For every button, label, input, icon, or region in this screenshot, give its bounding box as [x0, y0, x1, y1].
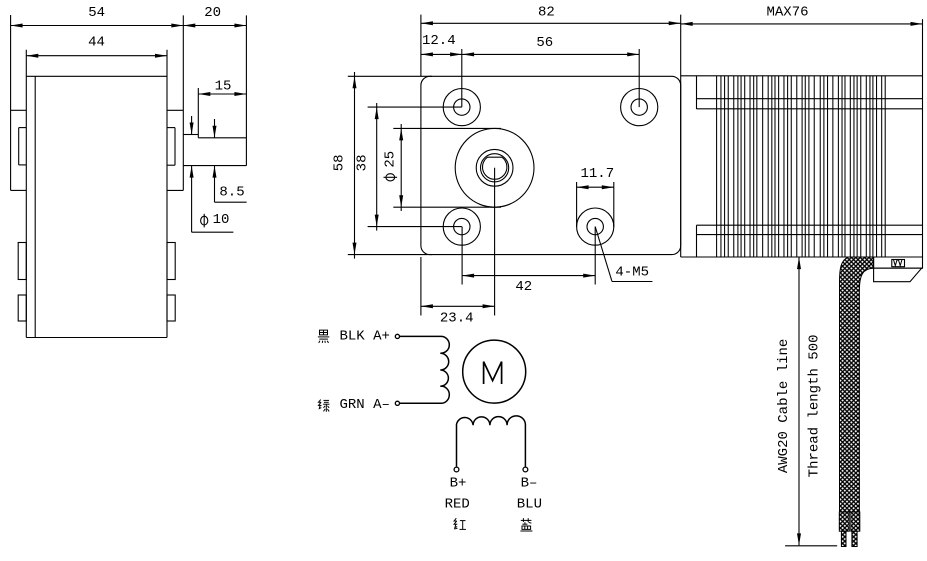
dimension 11.7 ext lines: [577, 182, 614, 227]
svg-text:56: 56: [536, 35, 553, 51]
left flange tab: [19, 128, 27, 165]
gearbox body outline: [26, 50, 167, 338]
dimension 11.7 text: [580, 166, 614, 182]
dimension 54 text: [88, 5, 105, 21]
gearbox side view: left flange ext+edge line: [10, 15, 12, 190]
dimension 8.5 text: [219, 184, 244, 200]
cable split wire left: [839, 512, 849, 531]
dimension 42 ext lines: [462, 227, 595, 285]
shaft flat top edge: [198, 137, 246, 139]
dimension 82 dim line: [421, 21, 681, 25]
label RED chinese: [454, 518, 466, 529]
dimension phi25 dim line: [399, 124, 403, 211]
label BLK A+: [340, 329, 390, 345]
label B-: [521, 476, 538, 492]
motor letter M: [484, 362, 502, 384]
svg-text:44: 44: [88, 35, 105, 51]
cable length dim line: [797, 257, 801, 545]
dimension 38 dim line: [375, 103, 379, 231]
svg-text:38: 38: [355, 154, 371, 171]
svg-text:82: 82: [538, 5, 555, 21]
label GRN A- chinese: [319, 400, 330, 412]
svg-text:15: 15: [215, 79, 232, 95]
dimension 82 text: [538, 5, 555, 21]
motor body outline: [681, 15, 923, 257]
dimension 42 text: [515, 279, 532, 295]
dimension phi10 leader: [192, 231, 234, 233]
dimension 58 ext lines: [348, 76, 432, 254]
hole ext line top-right: [638, 49, 640, 107]
svg-text:RED: RED: [445, 497, 470, 513]
coil A wires and winding: [399, 336, 449, 403]
right body tab lower: [167, 295, 175, 321]
dimension 15 text: [215, 79, 232, 95]
connector polarity mark: [892, 260, 905, 267]
left flange plate: [11, 110, 27, 190]
svg-text:11.7: 11.7: [580, 166, 614, 182]
dimension 23.4 ext line: [420, 257, 422, 316]
svg-text:8.5: 8.5: [219, 184, 244, 200]
label 4-M5 text: [615, 264, 649, 280]
dimension 12.4 dim line: [421, 52, 462, 56]
terminal A+: [395, 334, 399, 338]
svg-text:BLU: BLU: [517, 497, 542, 513]
right flange tab: [167, 128, 175, 166]
dimension 20 dim line: [183, 24, 246, 28]
dimension phi25 text: [382, 151, 398, 168]
dimension phi10 arrow stubs: [190, 116, 194, 232]
svg-text:B–: B–: [521, 476, 538, 492]
label GRN A-: [340, 397, 390, 413]
dimension 12.4 text: [422, 33, 456, 49]
svg-text:BLK A+: BLK A+: [340, 329, 390, 345]
dimension 56 dim line: [462, 52, 639, 56]
dimension phi10 text: [213, 212, 230, 228]
dimension 8.5 leader: [215, 201, 247, 203]
left body tab upper: [18, 243, 26, 280]
dimension 58 dim line: [353, 72, 357, 259]
label B+: [450, 476, 467, 492]
dimension 44 dim line: [26, 54, 167, 58]
label BLK A+ chinese: [318, 330, 329, 343]
svg-text:AWG20 Cable line: AWG20 Cable line: [776, 339, 792, 473]
right body tab upper: [167, 243, 175, 280]
svg-text:B+: B+: [450, 476, 467, 492]
shaft boss top edge: [183, 134, 198, 136]
shaft bottom edge: [183, 165, 246, 167]
dimension 8.5 arrow stubs: [213, 119, 217, 202]
dimension phi25 symbol: [384, 174, 398, 181]
dimension 20 text: [204, 5, 221, 21]
terminal B+: [454, 467, 459, 472]
dimension phi25 ext lines: [393, 128, 501, 207]
svg-text:23.4: 23.4: [440, 310, 474, 326]
shaft bushing rings: [476, 149, 513, 186]
dimension 56 text: [536, 35, 553, 51]
svg-text:Thread length 500: Thread length 500: [807, 334, 823, 477]
dimension 54 dim line: [11, 24, 184, 28]
dimension MAX76 dim line: [681, 22, 923, 26]
dimension MAX76 text: [766, 4, 808, 20]
shaft end face line: [245, 15, 247, 165]
mounting hole top-left: [443, 89, 480, 126]
dimension 38 ext lines: [368, 107, 462, 227]
svg-text:42: 42: [515, 279, 532, 295]
cable split wire right: [851, 512, 860, 531]
wire tip left: [841, 531, 846, 546]
cable length ext line: [785, 545, 837, 547]
label 4-M5 leader: [595, 227, 652, 282]
motor circle M: [463, 340, 526, 403]
hole ext line top-left: [461, 49, 463, 107]
coil B winding and wires: [457, 416, 526, 467]
D-shaft outline: [482, 157, 506, 179]
dimension phi10 symbol: [201, 214, 208, 228]
motor band lines bottom: [697, 225, 923, 234]
svg-text:GRN A–: GRN A–: [340, 397, 390, 413]
svg-text:25: 25: [382, 151, 398, 168]
gearbox body inner line: [34, 76, 36, 337]
motor front cap corner lines: [696, 76, 698, 257]
label BLU chinese: [520, 518, 532, 531]
svg-text:58: 58: [332, 154, 348, 171]
terminal A-: [395, 401, 399, 405]
motor lamination fins: [717, 76, 886, 257]
svg-text:12.4: 12.4: [422, 33, 456, 49]
dimension 58 text: [332, 154, 348, 171]
svg-text:4-M5: 4-M5: [615, 264, 649, 280]
shaft center line down: [494, 168, 496, 316]
left body tab lower: [18, 295, 26, 321]
wire tip right: [852, 531, 857, 546]
mounting hole top-right: [621, 89, 658, 126]
dimension 82 ext left: [420, 15, 422, 77]
cable elbow and vertical run: [840, 257, 874, 512]
dimension 42 dim line: [462, 274, 595, 278]
dimension 38 text: [355, 154, 371, 171]
label BLU: [517, 497, 542, 513]
right flange plate: [167, 15, 183, 190]
svg-text:54: 54: [88, 5, 105, 21]
label RED: [445, 497, 470, 513]
faceplate outline: [421, 76, 681, 254]
dimension 11.7 dim line: [577, 185, 614, 189]
mounting hole bottom-left: [443, 208, 480, 245]
dimension 15 ext line left: [197, 88, 199, 138]
terminal B-: [523, 467, 528, 472]
boss circle phi25: [455, 128, 534, 207]
mounting hole bottom-right: [577, 208, 614, 245]
dimension 23.4 dim line: [421, 304, 495, 308]
dimension 44 text: [88, 35, 105, 51]
svg-text:MAX76: MAX76: [766, 4, 808, 20]
dimension 15 dim line: [198, 92, 246, 96]
label Thread length 500: [807, 334, 823, 477]
label AWG20 Cable line: [776, 339, 792, 473]
dimension 23.4 text: [440, 310, 474, 326]
svg-text:10: 10: [213, 212, 230, 228]
svg-text:20: 20: [204, 5, 221, 21]
connector block: [874, 257, 923, 282]
motor band lines top: [697, 99, 923, 109]
